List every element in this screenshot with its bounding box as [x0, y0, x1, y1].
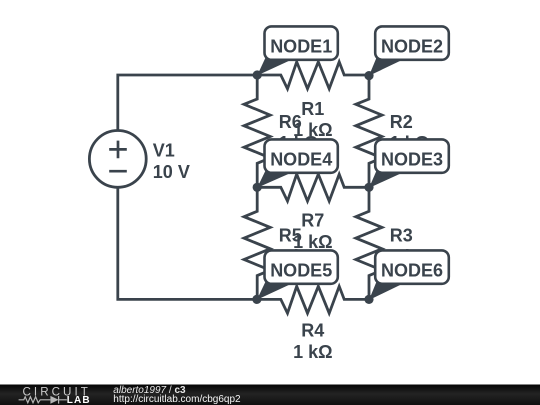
svg-text:NODE5: NODE5 [270, 261, 332, 281]
svg-text:R7: R7 [301, 211, 324, 231]
svg-text:10 V: 10 V [153, 162, 190, 182]
svg-text:NODE3: NODE3 [381, 150, 443, 170]
svg-text:http://circuitlab.com/cbg6qp2: http://circuitlab.com/cbg6qp2 [113, 394, 241, 405]
svg-text:NODE4: NODE4 [270, 150, 332, 170]
svg-text:NODE2: NODE2 [381, 37, 443, 57]
svg-text:R2: R2 [390, 112, 413, 132]
svg-text:R6: R6 [279, 112, 302, 132]
svg-text:R1: R1 [301, 99, 324, 119]
svg-text:LAB: LAB [67, 395, 91, 405]
svg-text:1 kΩ: 1 kΩ [293, 342, 332, 362]
svg-text:R4: R4 [301, 321, 324, 341]
svg-text:R3: R3 [390, 225, 413, 245]
svg-text:R5: R5 [279, 225, 302, 245]
svg-text:V1: V1 [153, 140, 175, 160]
svg-text:NODE1: NODE1 [270, 37, 332, 57]
svg-text:NODE6: NODE6 [381, 261, 443, 281]
